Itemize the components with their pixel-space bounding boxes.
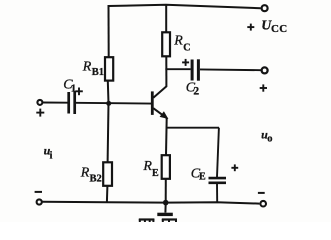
svg-text:1: 1 xyxy=(71,83,77,95)
capacitor CE xyxy=(209,178,227,183)
label + (CE polarity) xyxy=(231,164,238,171)
wire: RB1 bottom to base node xyxy=(107,81,110,104)
resistor RB1 xyxy=(105,57,113,80)
caption fragment (cut-off) right glyph xyxy=(162,219,177,222)
wire: input terminal to C1 xyxy=(43,102,68,104)
svg-text:C: C xyxy=(183,42,190,53)
label + (C1 polarity) xyxy=(75,88,83,96)
transistor Q1 base bar xyxy=(151,91,154,115)
svg-text:o: o xyxy=(267,134,272,145)
label RB2 xyxy=(80,166,102,185)
label - (output bottom polarity) xyxy=(258,192,265,194)
transistor Q1 collector stroke xyxy=(153,86,167,98)
terminal: input ui top xyxy=(37,100,42,105)
label ui xyxy=(44,144,53,162)
node: ground junction dot xyxy=(163,200,169,206)
label RE xyxy=(142,159,159,179)
wire: collector node to C2 xyxy=(165,68,190,70)
capacitor C1 xyxy=(69,91,75,114)
svg-text:E: E xyxy=(152,168,159,179)
label + (input polarity) xyxy=(36,109,44,117)
terminal: output uo bottom xyxy=(260,201,266,207)
wire: RB2 bottom to ground rail xyxy=(106,186,109,203)
label + (output polarity) xyxy=(260,84,267,91)
label C2 xyxy=(186,80,200,97)
wire: RB1 branch from top rail xyxy=(108,5,110,57)
caption fragment (cut-off) left glyph xyxy=(139,219,155,222)
transistor Q1 emitter stroke with arrow xyxy=(153,108,168,119)
wire: C2 to output terminal xyxy=(200,68,261,71)
label CE xyxy=(191,167,206,183)
label uo xyxy=(261,128,272,145)
node: base junction dot xyxy=(106,101,111,106)
label + (Ucc polarity) xyxy=(247,24,254,31)
svg-text:E: E xyxy=(199,172,206,183)
label RB1 xyxy=(82,59,104,78)
svg-text:R: R xyxy=(80,166,90,181)
svg-text:i: i xyxy=(50,151,53,162)
wire: bottom ground rail xyxy=(42,202,259,204)
wire: RC top to supply rail xyxy=(165,5,167,33)
resistor RC xyxy=(162,32,170,56)
wire: RE bottom to ground rail xyxy=(165,179,167,203)
resistor RB2 xyxy=(103,162,112,186)
capacitor C2 xyxy=(192,59,198,80)
terminal: input ui bottom xyxy=(37,199,42,204)
label RC xyxy=(173,33,190,53)
svg-text:2: 2 xyxy=(193,85,199,97)
terminal: output uo top xyxy=(262,67,268,73)
wire: CE branch vertical down to CE xyxy=(217,128,219,177)
svg-text:R: R xyxy=(82,59,92,74)
svg-text:B2: B2 xyxy=(90,174,102,185)
wire: C1 to base xyxy=(76,102,151,105)
terminal: +Ucc supply terminal xyxy=(262,5,268,11)
ground symbol xyxy=(157,203,173,215)
svg-text:R: R xyxy=(173,33,183,48)
svg-text:R: R xyxy=(142,159,152,174)
wire: CE bottom to ground rail xyxy=(216,184,218,203)
svg-text:CC: CC xyxy=(271,23,288,35)
resistor RE xyxy=(162,155,170,179)
wire: top supply rail xyxy=(109,5,261,8)
label C1 xyxy=(63,78,76,95)
wire: collector up to RC xyxy=(165,56,167,86)
wire: base node down to RB2 xyxy=(107,103,110,162)
svg-text:B1: B1 xyxy=(92,67,104,78)
wire: emitter node to CE branch (horizontal) xyxy=(167,127,220,129)
label Ucc xyxy=(261,18,287,35)
label - (input bottom polarity) xyxy=(35,191,42,193)
wire: emitter down to RE xyxy=(165,118,168,155)
label + (C2 polarity) xyxy=(182,59,189,66)
